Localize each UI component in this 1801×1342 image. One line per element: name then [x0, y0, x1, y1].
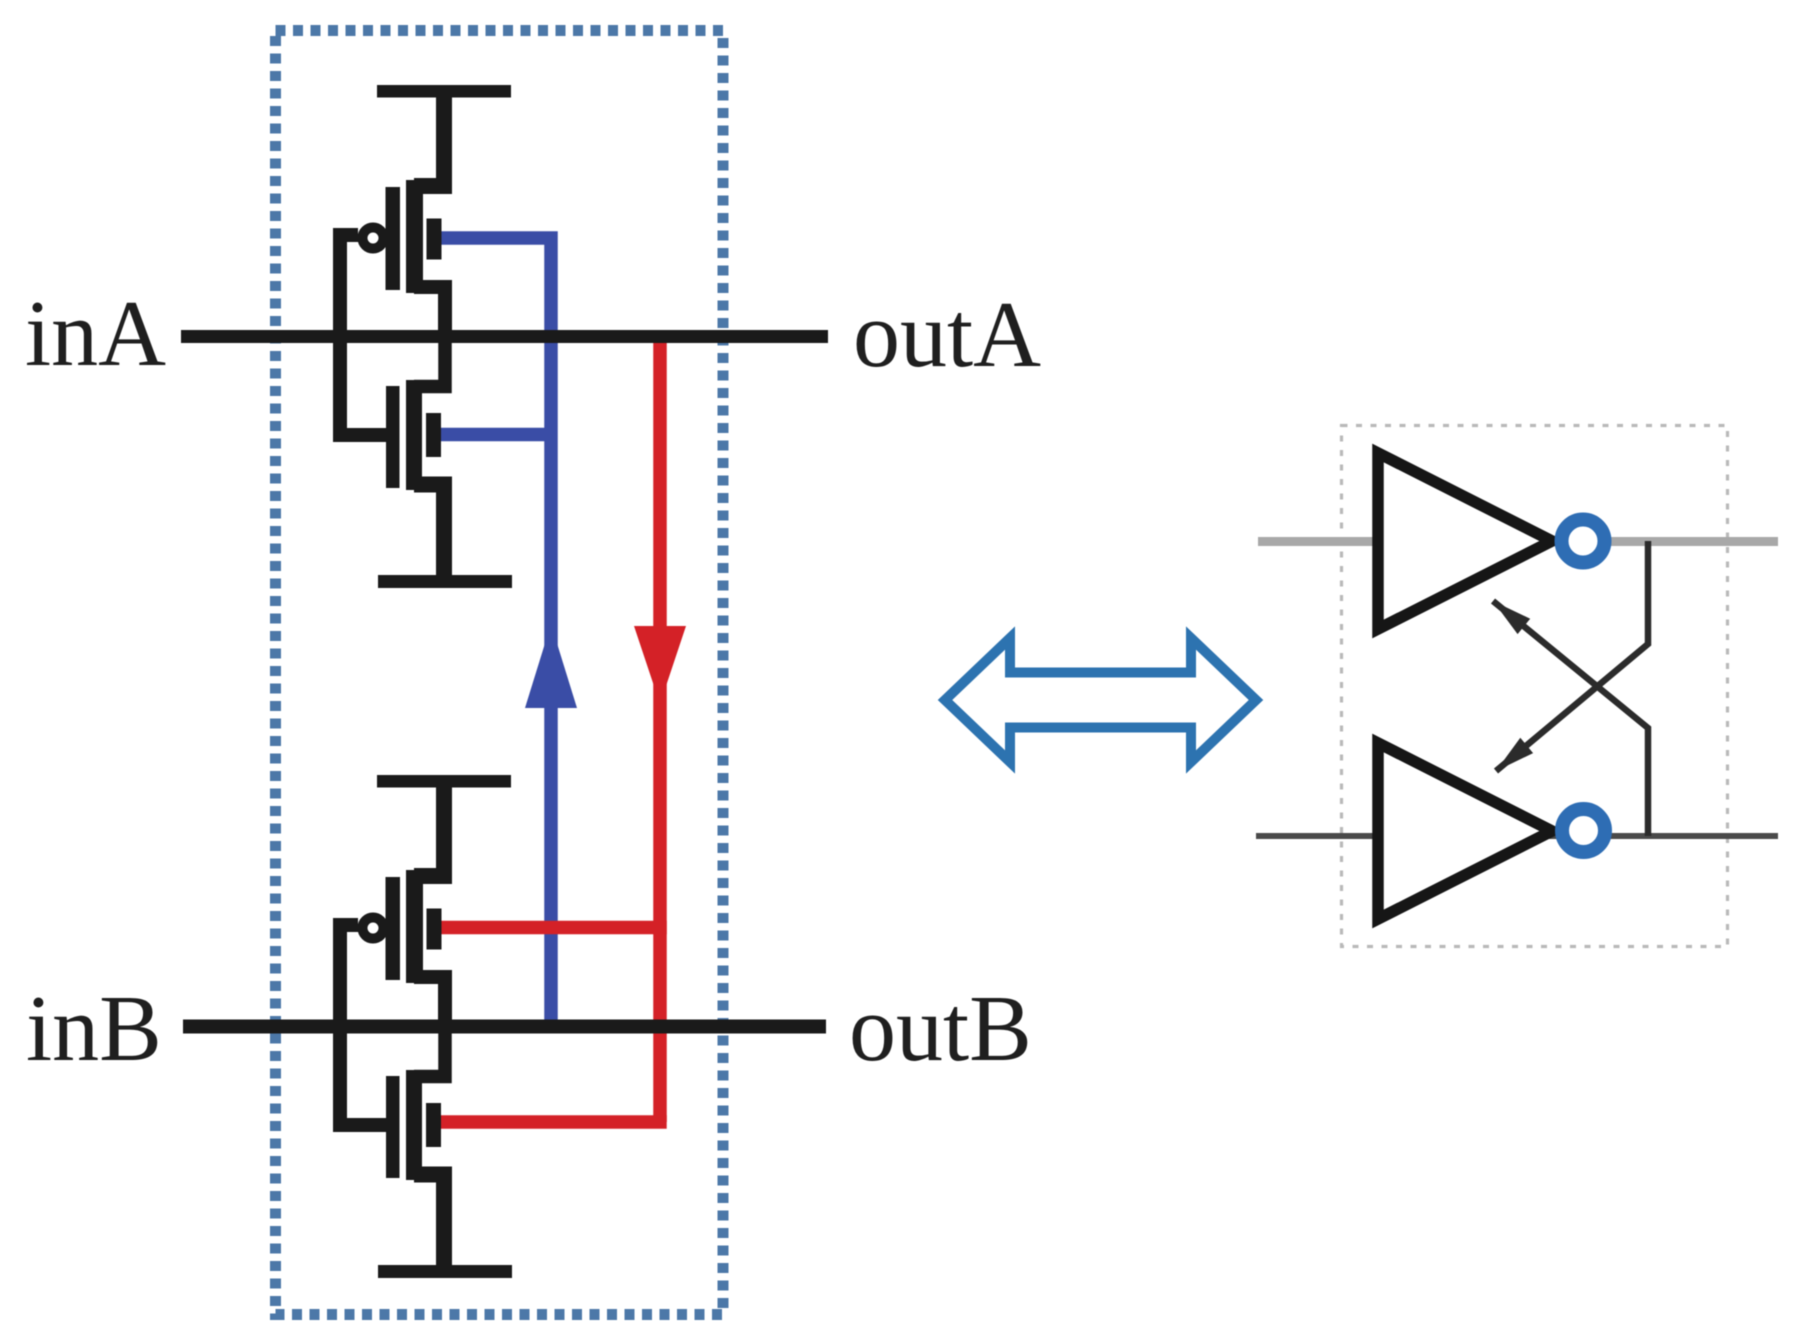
wire blue: M1 body to outB vertical run: [441, 238, 551, 1020]
arrowhead up-left: [1493, 601, 1530, 634]
M3 source lead: [414, 781, 444, 876]
M1 body contact bar: [427, 219, 442, 260]
M4 drain lead: [414, 1022, 445, 1077]
M1 source lead: [414, 91, 444, 186]
M3 body contact bar: [427, 909, 442, 950]
node line A (right, gray): [1258, 537, 1778, 546]
node line B (right, dark): [1256, 833, 1778, 839]
wire red feedback (outA to inverter B stubs), with down arrow: [441, 333, 667, 1122]
M2 body contact bar: [426, 413, 441, 457]
inverter U1 output bubble: [1562, 520, 1605, 563]
dotted equivalence box: [1342, 426, 1728, 947]
wire cross-couple outB to inA (right diagram): [1493, 601, 1648, 836]
svg-text:inA: inA: [25, 282, 166, 386]
M3 gate inversion bubble: [363, 918, 384, 939]
node inA line: [181, 330, 828, 343]
wire red: outA vertical run: [653, 333, 667, 1122]
power rail VDD (inverter B): [377, 775, 511, 788]
arrowhead red down: [634, 626, 686, 704]
M4 gate bar: [386, 1076, 400, 1178]
M2 gate bar: [386, 386, 400, 488]
M4 body contact bar: [426, 1103, 441, 1147]
svg-text:outB: outB: [849, 977, 1032, 1081]
M3 drain lead: [414, 977, 445, 1030]
M3 gate bar: [386, 877, 401, 980]
M4 channel bar: [406, 1070, 422, 1180]
wire gate connection (inverter B): [340, 925, 386, 1125]
M2 drain lead: [414, 332, 445, 387]
M1 channel bar: [406, 180, 423, 293]
M1 gate bar: [386, 187, 401, 290]
M2 channel bar: [406, 380, 422, 490]
wire cross-couple outA to inB (right diagram): [1496, 541, 1648, 771]
svg-text:outA: outA: [853, 283, 1041, 387]
svg-text:inB: inB: [26, 977, 162, 1081]
equivalence double arrow: [945, 638, 1256, 762]
wire blue: M2 body branch: [441, 428, 551, 442]
M1 gate inversion bubble: [363, 228, 384, 249]
inverter U2 triangle (right bottom): [1378, 743, 1552, 919]
arrowhead blue up: [525, 624, 577, 708]
wire gate connection (inverter A): [340, 235, 386, 435]
wire red: M4 body branch: [441, 1115, 667, 1129]
wire red: M3 body branch: [441, 921, 667, 935]
ground rail VSS (inverter B): [378, 1265, 512, 1278]
M3 channel bar: [406, 870, 423, 983]
arrowhead down-left: [1496, 738, 1533, 771]
transistor M3 PMOS (inverter B): [363, 781, 446, 1030]
ground rail VSS (inverter A): [378, 575, 512, 588]
inverter U1 triangle (right top): [1378, 453, 1552, 629]
inverter U2 output bubble: [1562, 809, 1605, 852]
wire blue feedback (outB to inverter A stubs), with up arrow: [441, 238, 551, 1020]
transistor M1 PMOS (inverter A): [363, 91, 446, 340]
transistor M4 NMOS (inverter B): [386, 1022, 445, 1271]
M4 source lead: [414, 1175, 444, 1272]
node inB line: [183, 1020, 826, 1034]
dashed cell boundary box: [276, 31, 724, 1315]
transistor M2 NMOS (inverter A): [386, 332, 445, 581]
power rail VDD (inverter A): [377, 85, 511, 98]
M2 source lead: [414, 485, 444, 582]
M1 drain lead: [414, 287, 445, 340]
